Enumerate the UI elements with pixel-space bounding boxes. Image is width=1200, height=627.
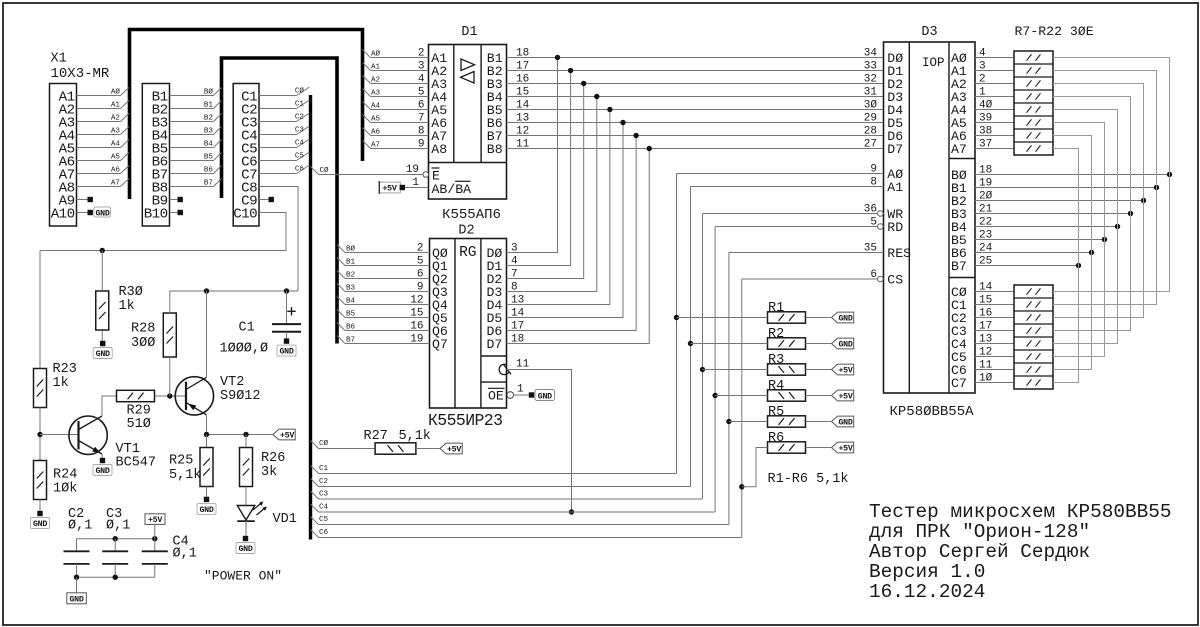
transistor VT1 bbox=[69, 416, 107, 454]
resistor R23 designator and value bbox=[53, 362, 77, 391]
wire R26 top stem bbox=[245, 435, 247, 448]
svg-text:34: 34 bbox=[864, 48, 878, 60]
svg-text:OE: OE bbox=[488, 389, 504, 404]
svg-text:B7: B7 bbox=[204, 179, 213, 187]
wire D2 D0 to data bus vertical bbox=[507, 58, 558, 253]
node R5 tap on RES line bbox=[726, 419, 731, 424]
wire pin A2 to bus A bbox=[77, 108, 121, 110]
node VT2 collector on power row bbox=[204, 288, 209, 293]
svg-text:BØ: BØ bbox=[346, 244, 356, 253]
svg-text:GND: GND bbox=[838, 315, 852, 324]
wire VD1 cathode stem bbox=[245, 521, 247, 536]
wire data bit 1 (D1 B2 to D3 D1) bbox=[507, 70, 884, 72]
wire D3 PC2 to resistor bbox=[975, 317, 1014, 319]
svg-text:CØ: CØ bbox=[295, 87, 305, 96]
bus A (address bus, thick) bbox=[130, 30, 363, 200]
flag GND at R5 bbox=[832, 416, 854, 427]
wire ground stem of decoupling rail bbox=[76, 577, 78, 593]
svg-text:A8: A8 bbox=[431, 142, 447, 157]
wire R3 to flag bbox=[806, 369, 832, 371]
wire D3 PB2 to loop vertical bbox=[975, 200, 1144, 202]
wire bus B tap to D2 Q3 bbox=[337, 284, 345, 292]
svg-text:+5V: +5V bbox=[838, 367, 852, 376]
wire pin B3 to bus B bbox=[170, 121, 214, 123]
capacitor C2 designator and value bbox=[68, 507, 92, 534]
node R6 tap on CS line bbox=[739, 484, 744, 489]
node data bit 2 junction bbox=[581, 81, 586, 86]
wire pin C10 to +5V input row bbox=[40, 213, 286, 251]
wire D3 PB1 to loop vertical bbox=[975, 187, 1157, 189]
svg-text:A4: A4 bbox=[371, 102, 381, 110]
svg-text:A4: A4 bbox=[111, 140, 121, 148]
bus C (thick) bbox=[309, 95, 312, 540]
wire loop A6 to C6 via R7-R22 bbox=[1053, 136, 1092, 370]
wire D2 OE to GND bbox=[514, 394, 529, 396]
wire C3 bottom stem bbox=[114, 564, 116, 577]
svg-text:C5: C5 bbox=[295, 153, 305, 161]
wire net C6 to CS vertical bbox=[319, 537, 742, 539]
wire pin A5 to bus A bbox=[77, 147, 121, 149]
svg-text:3Ø: 3Ø bbox=[864, 100, 878, 112]
bus entry A4 bbox=[121, 140, 130, 148]
wire D3 CS control line bbox=[742, 278, 878, 280]
wire D3 PA3 to resistor bbox=[975, 96, 1014, 98]
wire pin C6 to bus C bbox=[259, 160, 297, 162]
ground at C1 bbox=[284, 338, 289, 343]
svg-text:1ØØØ,Ø: 1ØØØ,Ø bbox=[220, 342, 269, 357]
node PB1 junction bbox=[1154, 185, 1159, 190]
pin A9 stub bbox=[77, 199, 88, 201]
wire pin C1 to bus C bbox=[259, 95, 297, 97]
svg-text:Ø,1: Ø,1 bbox=[173, 547, 197, 562]
svg-text:C2: C2 bbox=[319, 478, 329, 486]
svg-text:B8: B8 bbox=[487, 142, 503, 157]
bus entry A5 bbox=[121, 153, 130, 161]
bus entry B0 bbox=[214, 88, 222, 96]
wire R5 to RES vertical bbox=[729, 421, 768, 423]
buffer symbol triangle right bbox=[461, 59, 475, 71]
node PB3 junction bbox=[1128, 211, 1133, 216]
bus entry C3 bottom bbox=[311, 491, 319, 499]
bus entry C2 bbox=[297, 113, 310, 122]
svg-text:B1: B1 bbox=[346, 258, 356, 266]
wire loop A0 to C0 via R7-R22 bbox=[1053, 58, 1170, 292]
svg-text:Версия 1.0: Версия 1.0 bbox=[869, 561, 985, 583]
wire pin B2 to bus B bbox=[170, 108, 214, 110]
bus entry C5 bbox=[297, 152, 310, 161]
wire net C5 to RES vertical bbox=[319, 524, 729, 526]
wire pin B1 to bus B bbox=[170, 95, 214, 97]
resistor R30 bbox=[96, 291, 109, 330]
svg-text:A7: A7 bbox=[371, 141, 380, 149]
svg-text:R6: R6 bbox=[768, 431, 784, 446]
pin B10 no-connect square bbox=[178, 210, 183, 215]
pin C9 stub bbox=[259, 199, 269, 201]
svg-text:BC547: BC547 bbox=[116, 456, 157, 471]
wire VT1 emitter stem bbox=[101, 454, 103, 458]
svg-text:R4: R4 bbox=[768, 379, 784, 394]
node PB2 junction bbox=[1141, 198, 1146, 203]
wire pin C3 to bus C bbox=[259, 121, 297, 123]
wire data bit 6 (D1 B7 to D3 D6) bbox=[507, 135, 884, 137]
wire net C3 to WR vertical bbox=[319, 498, 703, 500]
wire bus A tap to D1 A5 bbox=[363, 102, 371, 110]
svg-text:R3: R3 bbox=[768, 353, 784, 368]
svg-text:27: 27 bbox=[864, 139, 877, 151]
node PB6 junction bbox=[1089, 250, 1094, 255]
svg-text:+5V: +5V bbox=[148, 516, 162, 525]
wire D2 D5 to data bus vertical bbox=[507, 123, 624, 318]
wire VT2 collector up to power row bbox=[206, 291, 208, 377]
svg-text:VD1: VD1 bbox=[273, 512, 297, 527]
svg-text:C3: C3 bbox=[295, 127, 305, 135]
D2 clock input symbol bbox=[499, 364, 511, 374]
wire D2 D6 to data bus vertical bbox=[507, 136, 637, 331]
svg-text:RG: RG bbox=[459, 245, 476, 261]
wire bus B tap to D2 Q6 bbox=[337, 323, 345, 331]
D2 output-enable OE label with overline bbox=[488, 388, 505, 403]
svg-text:Ø,1: Ø,1 bbox=[68, 519, 92, 534]
wire net C2 to A1 vertical bbox=[319, 486, 691, 488]
bus entry C0 bottom bbox=[311, 441, 319, 449]
bus entry A1 bbox=[121, 101, 130, 109]
wire R28 top to power row bbox=[169, 291, 171, 313]
bus entry C1 bbox=[297, 100, 310, 109]
wire R23 to R24 and VT1 base node bbox=[39, 408, 41, 461]
wire bus A tap to D1 A4 bbox=[363, 89, 371, 97]
wire R27 to +5V flag bbox=[416, 448, 440, 450]
svg-text:R3Ø: R3Ø bbox=[119, 285, 143, 300]
bus entry A3 bbox=[121, 127, 130, 135]
connector X1 column B box bbox=[142, 84, 169, 227]
svg-text:RES: RES bbox=[887, 246, 911, 261]
wire pin C4 to bus C bbox=[259, 134, 297, 136]
wire R29 to VT2 base bbox=[155, 395, 187, 397]
svg-text:D1: D1 bbox=[461, 25, 477, 40]
bus entry A2 bbox=[121, 114, 130, 122]
wire D3 PC6 to resistor bbox=[975, 369, 1014, 371]
bus entry B1 bbox=[214, 101, 222, 109]
wire bus B tap to D2 Q7 bbox=[337, 336, 345, 344]
node data bit 5 junction bbox=[620, 120, 625, 125]
svg-text:AØ: AØ bbox=[111, 87, 121, 96]
wire D3 WR control line bbox=[703, 213, 878, 215]
resistor R29 designator and value bbox=[127, 404, 151, 433]
flag +5V at R4 bbox=[832, 390, 854, 401]
node C3 bottom bbox=[113, 575, 118, 580]
resistor stack R15-R22 bbox=[1014, 285, 1053, 389]
capacitor C1 bbox=[272, 324, 301, 332]
svg-text:1: 1 bbox=[517, 384, 524, 396]
connector X1 reference label bbox=[51, 52, 110, 83]
wire data bit 5 (D1 B6 to D3 D5) bbox=[507, 122, 884, 124]
svg-text:A2: A2 bbox=[371, 76, 381, 84]
svg-text:GND: GND bbox=[69, 596, 83, 605]
resistor R24 designator and value bbox=[53, 468, 77, 497]
wire data bit 2 (D1 B3 to D3 D2) bbox=[507, 83, 884, 85]
wire D3 PC3 to resistor bbox=[975, 330, 1014, 332]
resistor R1 bbox=[768, 312, 806, 323]
svg-text:GND: GND bbox=[95, 467, 109, 476]
GND label at A10 bbox=[94, 207, 111, 219]
flag GND at R1 bbox=[832, 312, 854, 323]
bus entry C1 bottom bbox=[311, 466, 319, 474]
svg-text:B4: B4 bbox=[204, 140, 214, 148]
flag +5V at R27 bbox=[440, 443, 462, 454]
wire bus B tap to D2 Q1 bbox=[337, 258, 345, 266]
bus entry B6 bbox=[214, 166, 222, 174]
wire bus A tap to D1 A3 bbox=[363, 76, 371, 84]
resistor R6 bbox=[768, 442, 806, 453]
svg-text:10X3-MR: 10X3-MR bbox=[51, 66, 110, 82]
svg-text:R1: R1 bbox=[768, 301, 784, 316]
svg-text:A5: A5 bbox=[111, 153, 121, 161]
svg-text:GND: GND bbox=[838, 341, 852, 350]
svg-text:для ПРК "Орион-128": для ПРК "Орион-128" bbox=[869, 521, 1090, 543]
wire VT1 base bbox=[40, 434, 79, 436]
wire pin B7 to bus B bbox=[170, 173, 214, 175]
node data bit 1 junction bbox=[568, 68, 573, 73]
wire C2 top stem bbox=[76, 539, 78, 551]
wire +5V rail at VT2 bbox=[207, 434, 274, 436]
wire VT2 emitter down to +5V rail bbox=[206, 415, 208, 435]
port chip D3 body bbox=[884, 42, 976, 393]
node R1 tap on A0 line bbox=[674, 315, 679, 320]
node data bit 4 junction bbox=[607, 107, 612, 112]
wire VT1 collector to R29 bbox=[102, 396, 117, 416]
svg-text:"POWER ON": "POWER ON" bbox=[204, 569, 282, 584]
node at OE GND square bbox=[529, 392, 534, 397]
svg-text:CØ: CØ bbox=[319, 439, 329, 448]
wire D2 D4 to data bus vertical bbox=[507, 110, 610, 305]
svg-text:A2: A2 bbox=[111, 114, 121, 122]
flag +5V at R6 bbox=[832, 442, 854, 453]
wire pin C5 to bus C bbox=[259, 147, 297, 149]
wire R3 to WR vertical bbox=[703, 369, 768, 371]
node R4 tap on RD line bbox=[712, 393, 717, 398]
svg-text:5,1k: 5,1k bbox=[399, 429, 431, 444]
svg-text:К555ИР23: К555ИР23 bbox=[428, 411, 502, 430]
wire data bit 4 (D1 B5 to D3 D4) bbox=[507, 109, 884, 111]
wire A0 vertical to C line bbox=[676, 174, 678, 474]
svg-text:B3: B3 bbox=[346, 284, 356, 292]
svg-text:16.12.2024: 16.12.2024 bbox=[869, 581, 985, 603]
wire D3 PC1 to resistor bbox=[975, 304, 1014, 306]
svg-text:C2: C2 bbox=[295, 114, 305, 122]
svg-text:RD: RD bbox=[887, 220, 903, 235]
svg-text:B1: B1 bbox=[204, 101, 214, 109]
wire pin C7 to bus C bbox=[259, 173, 297, 175]
wire C2 bottom stem bbox=[76, 564, 78, 577]
capacitor C2 bbox=[64, 551, 90, 564]
ground at VT1 emitter bbox=[100, 458, 105, 463]
D3 CS inversion bubble bbox=[878, 276, 884, 282]
node PB4 junction bbox=[1115, 224, 1120, 229]
wire R6 to flag bbox=[806, 447, 832, 449]
wire loop A3 to C3 via R7-R22 bbox=[1053, 97, 1131, 331]
wire D3 PB6 to loop vertical bbox=[975, 252, 1092, 254]
node R28 bottom on VT2 base wire bbox=[167, 393, 172, 398]
resistor R25 designator and value bbox=[169, 454, 201, 484]
wire D3 A0 control line bbox=[677, 173, 884, 175]
transistor VT2 bbox=[175, 377, 213, 415]
wire A1 vertical to C line bbox=[690, 187, 692, 487]
svg-text:AØ: AØ bbox=[371, 49, 381, 58]
pin A9 no-connect square bbox=[88, 197, 93, 202]
svg-text:D2: D2 bbox=[458, 224, 474, 239]
wire R4 to flag bbox=[806, 395, 832, 397]
D3 RD inversion bubble bbox=[878, 224, 884, 230]
svg-text:R7-R22 3ØЕ: R7-R22 3ØЕ bbox=[1015, 24, 1094, 39]
svg-text:AB/BA: AB/BA bbox=[432, 182, 472, 197]
wire C3 top stem bbox=[114, 539, 116, 551]
svg-text:R26: R26 bbox=[261, 451, 285, 466]
pin A10 no-connect square bbox=[88, 210, 93, 215]
wire R24 bottom stem bbox=[39, 500, 41, 511]
svg-text:1Øk: 1Øk bbox=[53, 482, 77, 497]
svg-text:A7: A7 bbox=[111, 179, 120, 187]
svg-text:B7: B7 bbox=[951, 259, 967, 274]
resistor stack R7-R14 bbox=[1014, 51, 1053, 155]
svg-text:A6: A6 bbox=[111, 166, 121, 174]
wire switched power row (C8 net) bbox=[170, 290, 298, 292]
svg-text:R2: R2 bbox=[768, 327, 784, 342]
flag +5V at R3 bbox=[832, 364, 854, 375]
svg-text:5,1k: 5,1k bbox=[169, 468, 201, 483]
capacitor C1 designator and value bbox=[220, 321, 269, 357]
transistor VT1 designator and type bbox=[116, 442, 157, 471]
wire D3 PA0 to resistor bbox=[975, 57, 1014, 59]
wire +5V input row down to R23 bbox=[39, 251, 41, 369]
svg-text:Автор Сергей Сердюк: Автор Сергей Сердюк bbox=[869, 541, 1090, 563]
wire data bit 3 (D1 B4 to D3 D3) bbox=[507, 96, 884, 98]
svg-text:D3: D3 bbox=[921, 25, 937, 40]
svg-text:B2: B2 bbox=[346, 271, 356, 279]
capacitor C1 plus sign bbox=[287, 307, 295, 315]
wire net C0 to D1 E pin bbox=[311, 167, 424, 175]
bus entry C5 bottom bbox=[311, 517, 319, 525]
D1 direction pin AB/BA label with overline bbox=[432, 181, 472, 197]
wire D3 PA1 to resistor bbox=[975, 70, 1014, 72]
svg-text:Ø,1: Ø,1 bbox=[106, 519, 130, 534]
wire bus A tap to D1 A6 bbox=[363, 115, 371, 123]
node C4 top / +5V stem bbox=[152, 536, 157, 541]
bus entry B3 bbox=[214, 127, 222, 135]
node data bit 6 junction bbox=[633, 133, 638, 138]
wire D3 RES control line bbox=[729, 252, 884, 254]
wire C4 top stem bbox=[154, 539, 156, 551]
svg-text:A3: A3 bbox=[111, 127, 121, 135]
svg-text:D7: D7 bbox=[887, 142, 903, 157]
D3 WR inversion bubble bbox=[878, 211, 884, 217]
wire R1 to flag bbox=[806, 317, 832, 319]
wire bus B tap to D2 Q0 bbox=[337, 245, 345, 253]
connector X1 column A box bbox=[50, 84, 77, 227]
svg-text:CS: CS bbox=[887, 273, 903, 288]
ground at R24 bbox=[37, 511, 42, 516]
bus entry C4 bbox=[297, 139, 310, 148]
svg-text:+5V: +5V bbox=[447, 446, 461, 455]
resistor R28 designator and value bbox=[131, 322, 155, 352]
svg-text:B2: B2 bbox=[204, 114, 214, 122]
wire pin B8 to bus B bbox=[170, 186, 214, 188]
svg-text:C1: C1 bbox=[319, 465, 329, 473]
wire D3 PA7 to resistor bbox=[975, 148, 1014, 150]
wire CS vertical to C line bbox=[741, 279, 743, 538]
ground at VD1 bbox=[243, 536, 248, 541]
node R26 top on +5V rail bbox=[243, 432, 248, 437]
D2 OE inversion bubble bbox=[507, 392, 514, 399]
node data bit 7 junction bbox=[647, 146, 652, 151]
wire bus B tap to D2 Q4 bbox=[337, 297, 345, 305]
svg-text:B6: B6 bbox=[346, 323, 356, 331]
wire R1 to A0 vertical bbox=[677, 317, 768, 319]
pin B9 stub bbox=[170, 199, 178, 201]
wire loop A5 to C5 via R7-R22 bbox=[1053, 123, 1105, 357]
node PB7 junction bbox=[1076, 263, 1081, 268]
node at +5V flag D1 pin 1 bbox=[400, 185, 405, 190]
wire loop A7 to C7 via R7-R22 bbox=[1053, 149, 1079, 383]
wire C1 bottom stem bbox=[286, 332, 288, 339]
wire D2 D1 to data bus vertical bbox=[507, 71, 571, 266]
svg-text:B3: B3 bbox=[204, 127, 214, 135]
node VT1 base divider bbox=[37, 432, 42, 437]
resistor R26 bbox=[240, 448, 253, 487]
ground at R30 bbox=[100, 341, 105, 346]
svg-text:R1-R6 5,1k: R1-R6 5,1k bbox=[768, 472, 849, 487]
wire D3 A1 control line bbox=[691, 186, 884, 188]
svg-text:VT2: VT2 bbox=[220, 375, 244, 390]
node C1 plus on power row bbox=[284, 288, 289, 293]
svg-text:C1: C1 bbox=[239, 321, 255, 336]
svg-text:R23: R23 bbox=[53, 362, 77, 377]
wire pin A4 to bus A bbox=[77, 134, 121, 136]
wire D2 D2 to data bus vertical bbox=[507, 84, 584, 279]
wire R6 to CS vertical (jogged) bbox=[742, 448, 768, 487]
wire D3 PA4 to resistor bbox=[975, 109, 1014, 111]
wire bus A tap to D1 A8 bbox=[363, 141, 371, 149]
wire D2 clock pin 11 to net C4 bbox=[507, 370, 572, 513]
svg-text:31: 31 bbox=[864, 87, 878, 99]
svg-text:GND: GND bbox=[838, 419, 852, 428]
wire D3 PC4 to resistor bbox=[975, 343, 1014, 345]
wire R26 to VD1 bbox=[245, 487, 247, 506]
wire D3 PA2 to resistor bbox=[975, 83, 1014, 85]
svg-text:C3: C3 bbox=[319, 490, 329, 498]
pin C9 no-connect square bbox=[269, 197, 274, 202]
svg-text:+5V: +5V bbox=[838, 445, 852, 454]
register D2 body bbox=[430, 239, 507, 409]
node D2 clock on C4 line bbox=[569, 509, 574, 514]
flag +5V at rail bbox=[273, 429, 295, 440]
svg-text:GND: GND bbox=[238, 545, 252, 554]
bus entry B5 bbox=[214, 153, 222, 161]
resistor R27 bbox=[375, 443, 416, 454]
wire D3 PA5 to resistor bbox=[975, 122, 1014, 124]
bus entry B4 bbox=[214, 140, 222, 148]
svg-text:GND: GND bbox=[279, 348, 293, 357]
wire D3 RD control line bbox=[715, 226, 877, 228]
wire D3 PA6 to resistor bbox=[975, 135, 1014, 137]
wire D3 PC7 to resistor bbox=[975, 382, 1014, 384]
bus entry C3 bbox=[297, 126, 310, 135]
D1 E inversion bubble bbox=[423, 172, 429, 178]
svg-text:X1: X1 bbox=[51, 52, 67, 67]
node data bit 3 junction bbox=[594, 94, 599, 99]
bus entry C0 bbox=[297, 87, 310, 96]
bus entry A6 bbox=[121, 166, 130, 174]
node PB0 junction bbox=[1167, 172, 1172, 177]
